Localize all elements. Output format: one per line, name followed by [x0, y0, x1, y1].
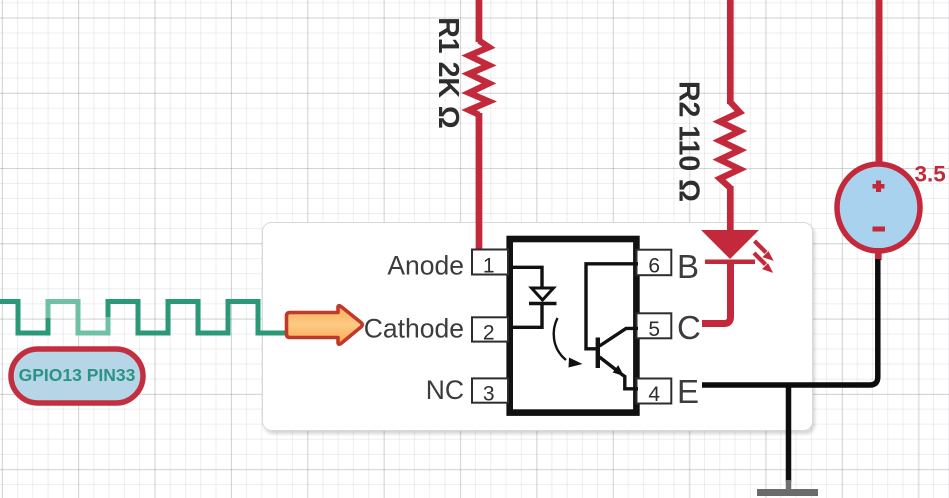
svg-text:Anode: Anode: [387, 250, 464, 280]
pin 1 box: [472, 250, 508, 278]
svg-text:2: 2: [483, 322, 495, 345]
svg-text:3.5: 3.5: [915, 162, 946, 187]
resistor R1 zigzag: [469, 41, 489, 115]
label Anode: [387, 250, 464, 280]
ground: [757, 489, 818, 496]
pin 5 box: [637, 313, 672, 341]
wire: LED cathode to pin 5 C: [702, 261, 731, 324]
svg-text:R2 110 Ω: R2 110 Ω: [673, 81, 705, 202]
pin 4 box: [637, 379, 672, 407]
pin 6 box: [637, 250, 672, 278]
label E: [677, 373, 699, 410]
resistor R2 zigzag: [720, 102, 740, 188]
label R2 110 Ω: [673, 81, 705, 202]
panel (white background card of optocoupler): [263, 223, 813, 431]
wire: battery top lead from image top: [876, 0, 883, 166]
internal phototransistor: [586, 264, 638, 389]
wire: R1 bottom lead down to pin 1: [476, 113, 483, 251]
node GPIO13 PIN33 label pill: [11, 349, 143, 403]
orange signal-flow arrow into Cathode: [287, 306, 363, 345]
wire: R2 bottom lead down to LED: [727, 186, 734, 231]
svg-text:E: E: [677, 373, 699, 410]
svg-text:NC: NC: [426, 375, 464, 405]
svg-text:C: C: [677, 309, 701, 346]
battery V1 3.5V: [837, 164, 920, 251]
wire: R2 top lead from image top: [727, 0, 734, 104]
svg-text:3: 3: [483, 383, 495, 406]
svg-text:R1 2K Ω: R1 2K Ω: [432, 17, 464, 129]
pin 2 box: [472, 317, 508, 344]
label 3.5: [915, 162, 946, 187]
label R1 2K Ω: [432, 17, 464, 129]
svg-text:B: B: [677, 248, 699, 285]
light coupling arrow inside IC: [554, 318, 583, 368]
optocoupler U1 body: [510, 239, 637, 413]
svg-text:1: 1: [483, 255, 495, 278]
LED D1 (indicator) triangle and cathode bar: [701, 230, 759, 262]
label NC: [426, 375, 464, 405]
svg-text:6: 6: [648, 255, 660, 278]
pin 3 box: [472, 378, 508, 405]
svg-text:5: 5: [648, 318, 660, 341]
svg-text:4: 4: [648, 383, 660, 406]
internal LED of optocoupler: [511, 267, 557, 327]
label B: [677, 248, 699, 285]
wire: ground branch: [786, 385, 792, 489]
svg-text:Cathode: Cathode: [364, 313, 464, 343]
wire: lighter faded portion of square wave: [48, 302, 108, 334]
wire: square wave signal from GPIO: [0, 302, 288, 334]
LED emission arrows: [754, 241, 772, 272]
label Cathode: [364, 313, 464, 343]
svg-text:GPIO13 PIN33: GPIO13 PIN33: [19, 365, 136, 385]
wire: R1 top lead from image top: [476, 0, 483, 42]
wire: battery negative down and left to E: [702, 248, 878, 385]
label C: [677, 309, 701, 346]
